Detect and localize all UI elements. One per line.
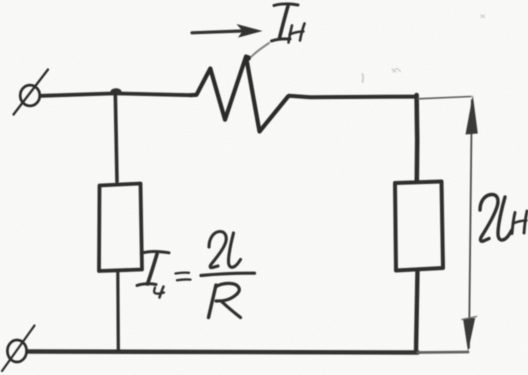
wire top-right segment: [289, 96, 416, 97]
bottom wire: [28, 352, 469, 353]
wire left branch lower: [116, 271, 120, 351]
terminal top-left (input node): [14, 70, 49, 115]
wire left branch upper: [115, 93, 117, 182]
label Uн (voltage): [480, 195, 527, 242]
voltage measure arrow Uн (double headed): [418, 95, 478, 352]
wire right branch upper: [414, 95, 419, 182]
wire right branch lower: [416, 270, 418, 352]
label I4 = U/R (formula): [137, 232, 255, 318]
resistor (zigzag) in top wire: [191, 57, 289, 132]
resistor R right (load): [395, 182, 443, 271]
wire top-left segment: [42, 93, 191, 95]
terminal bottom-left (input node): [2, 326, 35, 372]
current arrow Iн: [192, 24, 263, 38]
label Iн: [272, 4, 305, 43]
junction node top: [111, 88, 122, 94]
faint scan artifacts: [363, 15, 485, 82]
ink blob at zigzag peak: [244, 55, 251, 61]
stray pen stroke below label: [252, 43, 270, 57]
resistor R left: [99, 184, 142, 272]
